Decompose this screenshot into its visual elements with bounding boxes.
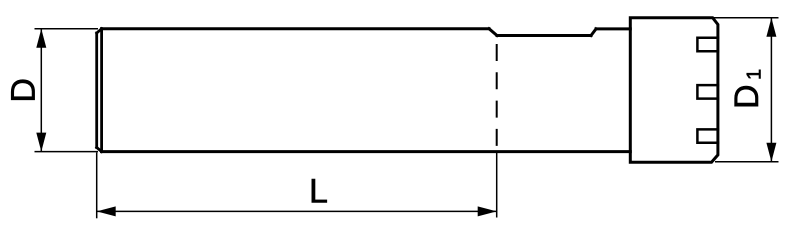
- label D1: [735, 70, 761, 106]
- nut slot 3: [697, 129, 718, 142]
- shank body outline: [97, 29, 631, 152]
- dimension D1 arrow bottom: [766, 143, 776, 162]
- nut slot 1: [697, 38, 718, 52]
- dimension D arrow top: [36, 29, 46, 48]
- shank top edge before nut: [596, 27, 630, 30]
- dimension D extension line bottom: [35, 151, 99, 153]
- label L: [312, 179, 327, 202]
- dimension D1 extension line bottom: [715, 161, 779, 163]
- dimension L arrow right: [478, 206, 497, 216]
- dimension L arrow left: [97, 206, 116, 216]
- shank chamfer inner edge: [100, 29, 103, 152]
- dimension L line: [97, 210, 497, 212]
- dimension D1 line: [770, 18, 772, 162]
- neck step-up chamfer: [591, 29, 596, 36]
- shank left chamfer top: [97, 29, 102, 33]
- neck step-down chamfer: [489, 29, 497, 36]
- shank bottom edge: [102, 150, 631, 153]
- nut slot 2: [697, 85, 718, 99]
- dimension L extension line left: [96, 153, 98, 219]
- collet nut outline: [630, 18, 718, 163]
- shank left chamfer bottom: [97, 148, 102, 152]
- dimension D extension line top: [35, 28, 99, 30]
- dimension D1 arrow top: [766, 18, 776, 37]
- dimension D line: [40, 29, 42, 152]
- neck top edge: [497, 34, 591, 37]
- hidden edge dashed line: [496, 44, 498, 152]
- dimension D arrow bottom: [36, 133, 46, 152]
- dimension L extension line right: [496, 152, 498, 218]
- shank left end face: [95, 33, 98, 148]
- shank top edge: [102, 27, 489, 30]
- label D: [11, 80, 34, 100]
- dimension D1 extension line top: [713, 17, 779, 19]
